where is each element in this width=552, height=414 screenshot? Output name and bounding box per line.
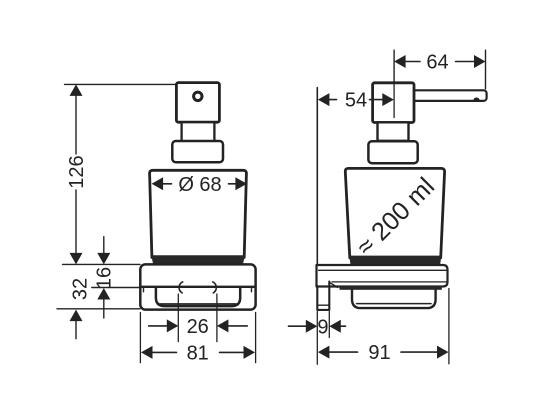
svg-text:54: 54 (345, 90, 367, 112)
svg-text:126: 126 (66, 155, 88, 188)
svg-text:26: 26 (187, 316, 209, 338)
svg-text:16: 16 (93, 267, 115, 289)
svg-text:64: 64 (426, 52, 448, 74)
svg-text:Ø 68: Ø 68 (178, 174, 221, 196)
svg-text:9: 9 (317, 316, 328, 338)
svg-text:81: 81 (187, 343, 209, 365)
svg-text:91: 91 (368, 342, 390, 364)
svg-text:32: 32 (70, 278, 92, 300)
